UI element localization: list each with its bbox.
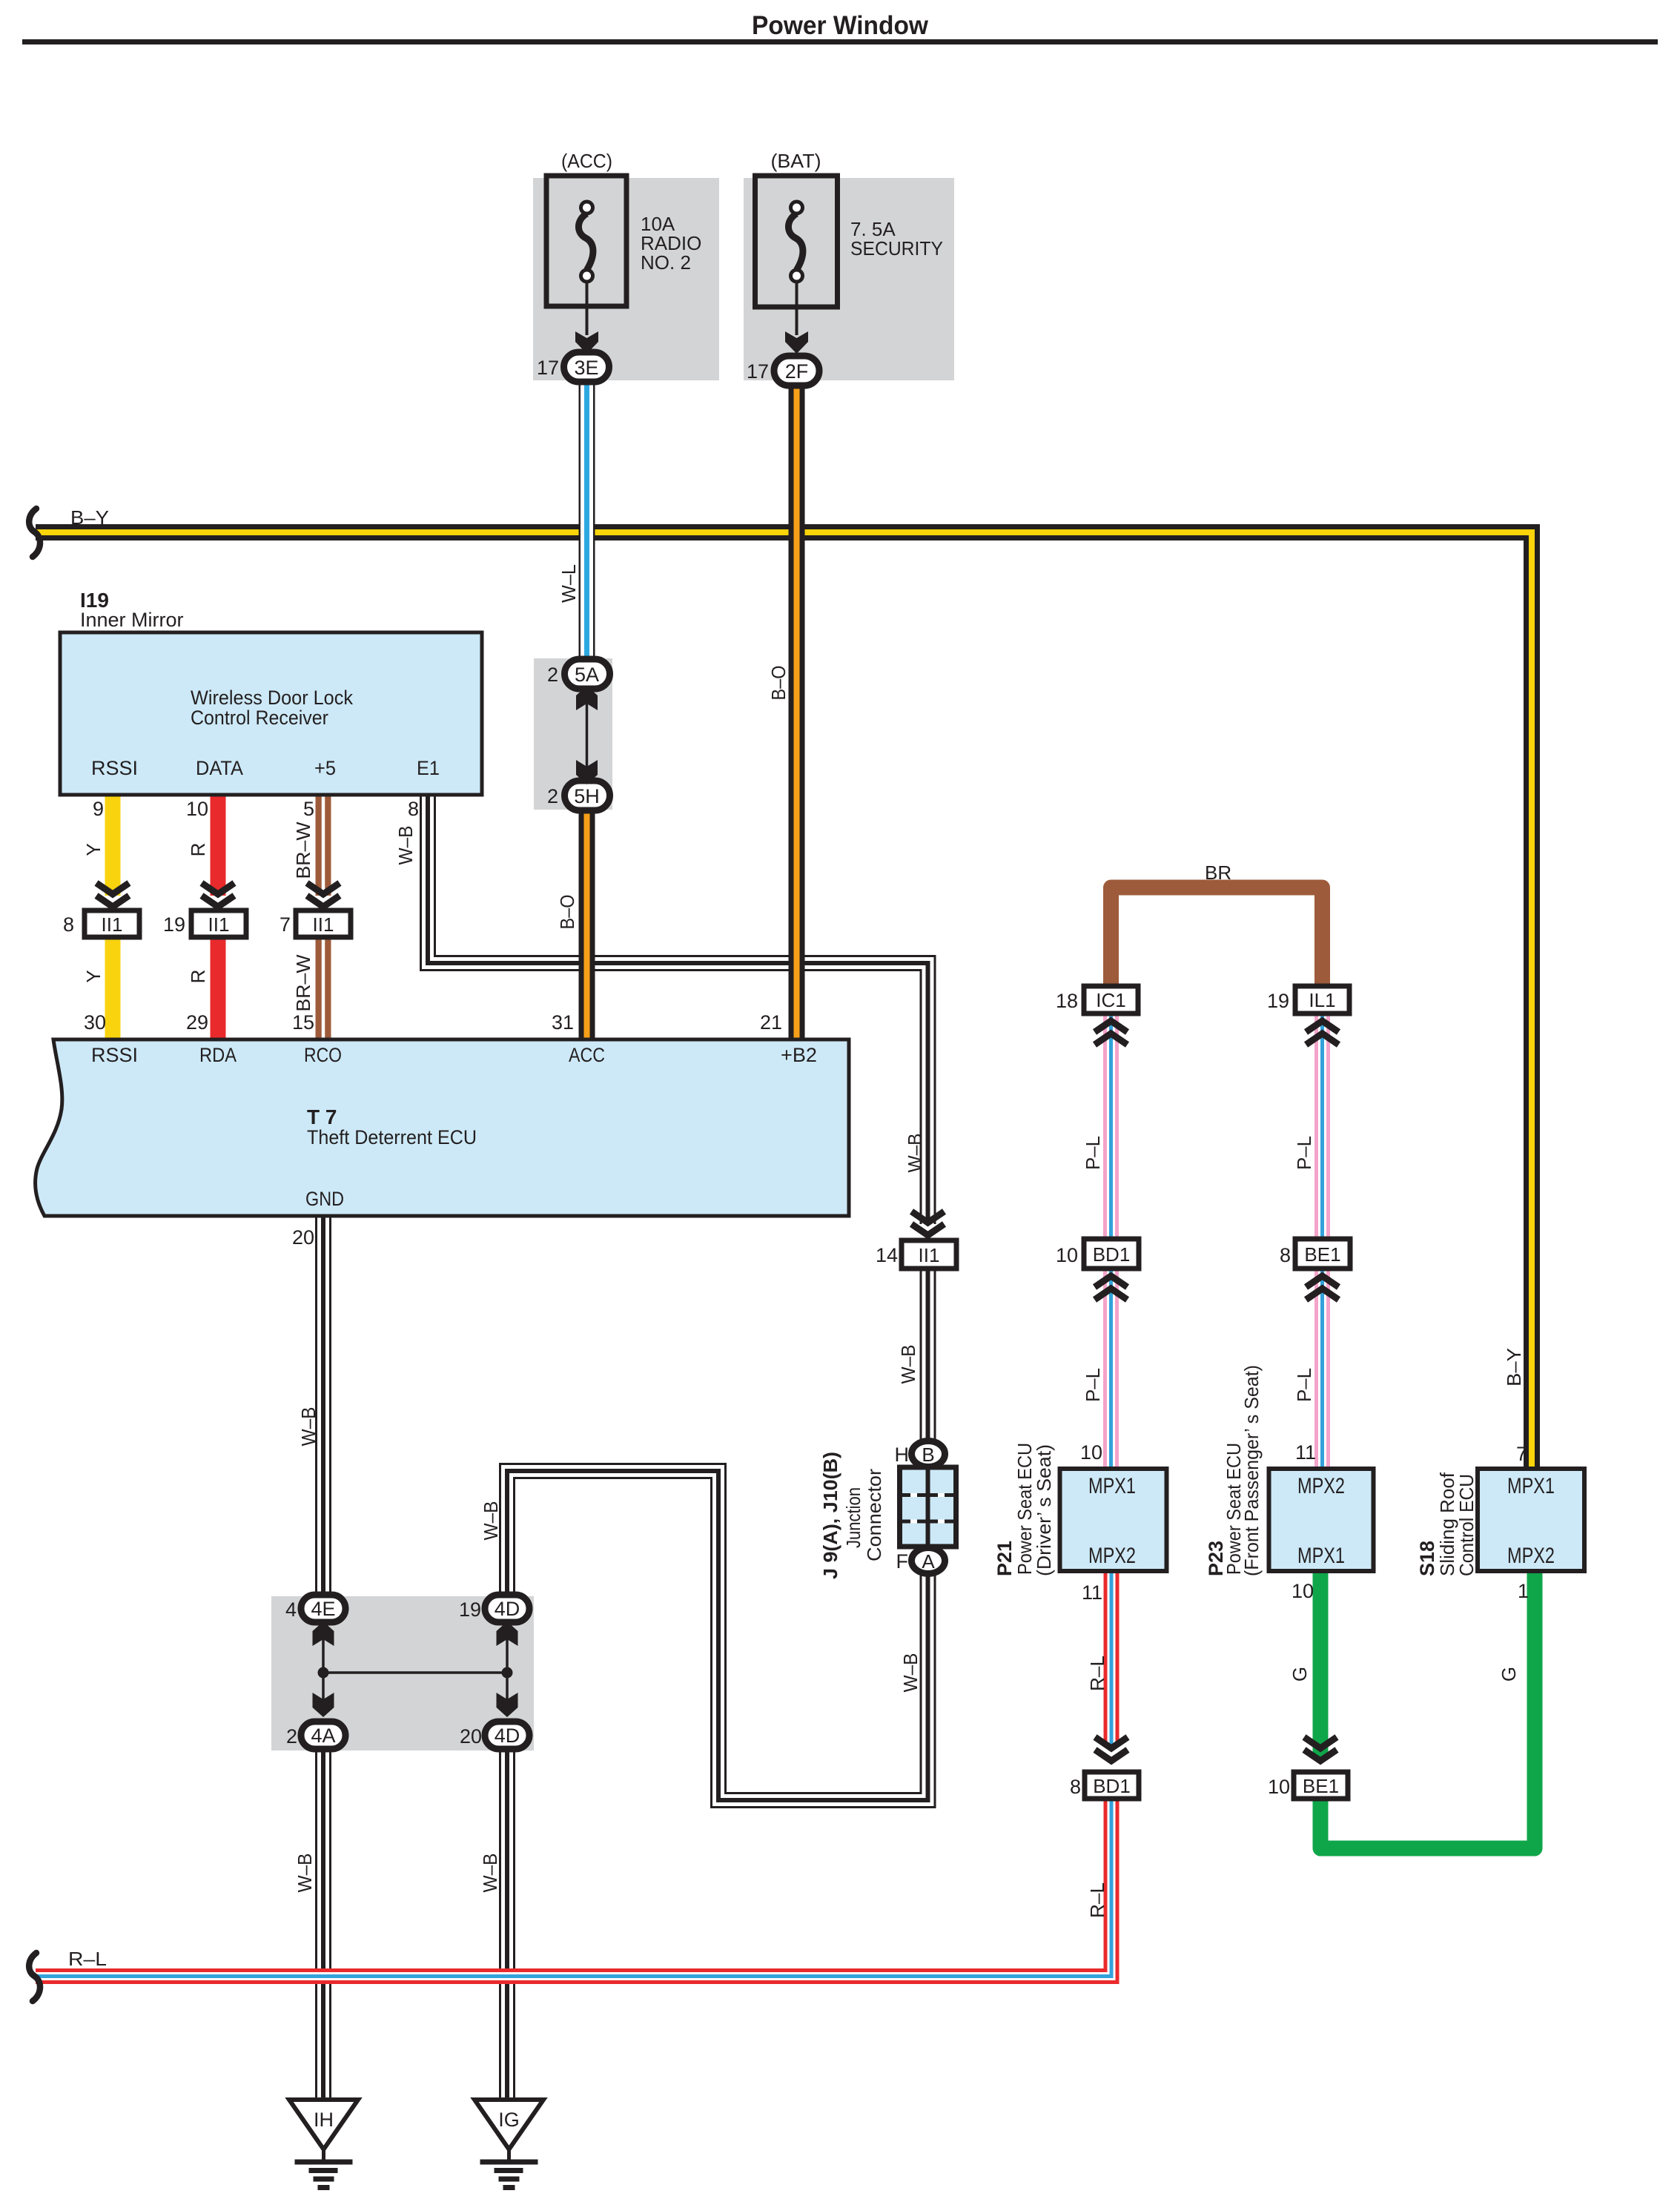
svg-text:IC1: IC1: [1096, 989, 1125, 1011]
svg-text:8: 8: [1280, 1244, 1291, 1266]
wire G: BE1 pin 10 down, right and up to S18 MPX2 pin 1: [1320, 1570, 1535, 1848]
svg-text:B: B: [922, 1444, 934, 1466]
ground IG: [474, 2100, 543, 2149]
svg-text:RSSI: RSSI: [91, 1044, 138, 1066]
svg-text:MPX1: MPX1: [1297, 1544, 1345, 1568]
svg-text:19: 19: [163, 913, 185, 936]
shade box: BAT fuse block: [744, 178, 954, 380]
svg-text:Control Receiver: Control Receiver: [191, 707, 328, 729]
svg-text:II1: II1: [313, 913, 334, 936]
svg-text:J 9(A), J10(B): J 9(A), J10(B): [819, 1452, 841, 1579]
svg-text:P–L: P–L: [1293, 1136, 1315, 1170]
connector II1 (pin 19): [191, 910, 246, 937]
fuse 10A RADIO NO.2 (ACC) body: [546, 176, 626, 306]
wire R-L: horizontal bus at bottom from left break up to BD1 pin 8: [36, 1799, 1111, 1977]
arrow chevrons into II1 pin 19: [202, 883, 234, 907]
svg-text:W–B: W–B: [479, 1854, 501, 1893]
arrow chevrons up into IL1: [1306, 1021, 1339, 1045]
svg-text:B–O: B–O: [767, 666, 790, 701]
svg-text:IG: IG: [498, 2109, 520, 2131]
svg-text:10: 10: [1268, 1776, 1290, 1798]
connector oval 4D (pin 19): [485, 1595, 529, 1622]
svg-text:W–B: W–B: [294, 1854, 316, 1893]
arrow chevrons up into BE1: [1306, 1276, 1339, 1300]
wire W-B: T7 GND pin 20 down to 4E: [315, 1216, 331, 1596]
svg-text:IL1: IL1: [1309, 989, 1335, 1011]
svg-text:20: 20: [460, 1725, 482, 1748]
svg-text:ACC: ACC: [569, 1044, 605, 1066]
svg-text:19: 19: [1267, 990, 1289, 1012]
connector II1 (pin 7): [296, 910, 351, 937]
svg-text:R–L: R–L: [1086, 1882, 1108, 1918]
svg-text:2: 2: [286, 1725, 297, 1748]
arrow chevrons into II1 pin 8: [96, 883, 129, 907]
svg-text:7: 7: [280, 913, 291, 936]
connector oval 2F: [774, 356, 819, 386]
break squiggle at left end of R-L: [29, 1953, 40, 2001]
svg-text:BR: BR: [1205, 862, 1231, 884]
junction connector body: [900, 1467, 956, 1547]
svg-text:MPX2: MPX2: [1088, 1544, 1136, 1568]
svg-text:BR–W: BR–W: [292, 954, 314, 1011]
svg-text:BE1: BE1: [1304, 1243, 1340, 1266]
connector oval B: [912, 1441, 945, 1467]
svg-text:10: 10: [1056, 1244, 1078, 1266]
svg-text:II1: II1: [102, 913, 123, 936]
svg-text:Connector: Connector: [863, 1469, 885, 1561]
svg-text:W–B: W–B: [480, 1501, 502, 1541]
svg-text:II1: II1: [919, 1244, 940, 1266]
fuse BAT output lead: [796, 282, 798, 335]
svg-text:S18: S18: [1416, 1541, 1438, 1576]
svg-text:DATA: DATA: [196, 757, 243, 779]
svg-text:8: 8: [63, 913, 74, 936]
wire W-B: 4D pin 20 down to IG ground: [499, 1748, 515, 2101]
connector BD1 (pin 10): [1084, 1239, 1139, 1269]
svg-text:17: 17: [537, 357, 559, 379]
junction dot left: [318, 1667, 329, 1679]
connector oval 4E: [301, 1595, 345, 1622]
title rule: [22, 39, 1658, 44]
svg-text:W–B: W–B: [904, 1134, 926, 1173]
svg-text:B–O: B–O: [556, 895, 578, 930]
svg-text:+5: +5: [314, 757, 336, 779]
svg-text:IH: IH: [314, 2109, 334, 2131]
svg-text:R: R: [187, 843, 209, 857]
svg-text:7: 7: [1516, 1443, 1527, 1465]
arrow chevrons into II1 pin 14: [912, 1211, 945, 1235]
connector oval 4A: [301, 1722, 345, 1749]
svg-text:10: 10: [186, 798, 208, 820]
junction dot right: [502, 1667, 513, 1679]
arrow down toward lower 4D: [497, 1693, 518, 1717]
fuse ACC output lead: [586, 282, 589, 335]
arrow down toward 4A: [313, 1693, 334, 1717]
ground IH: [289, 2100, 358, 2149]
fuse 7.5A SECURITY (BAT) body: [755, 176, 838, 307]
svg-text:5H: 5H: [574, 785, 600, 807]
connector oval A: [912, 1548, 945, 1574]
svg-text:G: G: [1498, 1667, 1520, 1682]
connector II1 (pin 8): [85, 910, 139, 937]
svg-text:P–L: P–L: [1082, 1368, 1104, 1402]
wire P-L: IL1 down to BE1 pin 8: [1314, 1014, 1330, 1240]
svg-text:W–B: W–B: [897, 1345, 919, 1384]
svg-text:21: 21: [760, 1011, 782, 1034]
svg-text:SECURITY: SECURITY: [850, 237, 943, 259]
svg-text:MPX1: MPX1: [1507, 1474, 1555, 1498]
svg-text:W–B: W–B: [394, 826, 417, 865]
svg-text:R–L: R–L: [68, 1948, 107, 1970]
svg-text:BR–W: BR–W: [292, 821, 314, 879]
arrow up toward 4E: [313, 1621, 334, 1646]
svg-text:4D: 4D: [495, 1725, 520, 1747]
svg-text:B–Y: B–Y: [70, 506, 109, 529]
wire R: II1 pin 19 to T7 RDA pin 29: [211, 937, 226, 1039]
arrow chevrons up into BD1: [1095, 1276, 1128, 1300]
svg-text:9: 9: [93, 798, 104, 820]
ECU P21 Power Seat ECU (Driver's Seat): [1060, 1469, 1167, 1571]
svg-text:3E: 3E: [574, 357, 598, 379]
svg-text:W–B: W–B: [297, 1407, 320, 1446]
connector BD1 (pin 8): [1085, 1772, 1139, 1799]
svg-text:8: 8: [1070, 1776, 1081, 1798]
fuse element ACC: [578, 214, 593, 270]
wire G: P23 MPX1 pin 10 down to BE1 pin 10: [1313, 1570, 1329, 1759]
svg-text:G: G: [1289, 1667, 1311, 1682]
svg-text:MPX2: MPX2: [1507, 1544, 1555, 1568]
connector oval 4D (pin 20): [485, 1722, 529, 1749]
tie bar between 4E and 4D legs: [323, 1671, 507, 1674]
wire BR-W: II1 pin 7 to T7 RCO pin 15: [316, 937, 331, 1039]
svg-text:2: 2: [547, 664, 558, 686]
svg-text:19: 19: [459, 1598, 481, 1621]
svg-text:(Driver’ s Seat): (Driver’ s Seat): [1033, 1444, 1055, 1576]
svg-text:GND: GND: [305, 1188, 344, 1210]
svg-text:4A: 4A: [311, 1725, 335, 1747]
svg-text:15: 15: [292, 1011, 314, 1034]
svg-text:Junction: Junction: [842, 1487, 864, 1548]
arrow into connector 3E: [575, 331, 598, 354]
svg-text:Y: Y: [82, 843, 105, 856]
svg-text:10: 10: [1080, 1441, 1102, 1464]
ECU S18 Sliding Roof Control ECU: [1478, 1469, 1584, 1571]
svg-text:5A: 5A: [575, 664, 599, 686]
svg-text:RDA: RDA: [199, 1044, 237, 1066]
svg-text:RCO: RCO: [304, 1044, 342, 1066]
svg-text:E1: E1: [417, 757, 440, 779]
svg-text:P21: P21: [993, 1541, 1016, 1576]
svg-text:BD1: BD1: [1093, 1243, 1131, 1266]
wire B-Y: horizontal bus from left break, across top, down right side to S18 pin 7: [36, 532, 1532, 1469]
arrow chevrons up into IC1: [1095, 1021, 1128, 1045]
wire B-O: fuse 2F down to T7 +B2 pin 21: [789, 383, 805, 1039]
svg-text:5: 5: [303, 798, 314, 820]
wire B-O: 5H down to T7 ACC pin 31: [579, 808, 595, 1039]
connector BE1 (pin 10): [1294, 1772, 1348, 1799]
wire P-L: BD1 down to P21 MPX1 pin 10: [1103, 1269, 1119, 1470]
svg-text:18: 18: [1056, 990, 1078, 1012]
connector oval 5H: [565, 781, 610, 810]
svg-text:4D: 4D: [495, 1598, 520, 1620]
arrow into connector 2F: [785, 331, 808, 354]
svg-text:H: H: [895, 1444, 910, 1466]
arrow down toward 5H: [576, 760, 598, 784]
svg-text:30: 30: [84, 1011, 106, 1034]
wire R-L: P21 MPX2 pin 11 down to BD1 pin 8: [1104, 1570, 1120, 1747]
link lead 4E-4A: [322, 1631, 325, 1709]
svg-text:11: 11: [1082, 1581, 1102, 1604]
svg-text:MPX2: MPX2: [1297, 1474, 1345, 1498]
svg-text:R–L: R–L: [1086, 1656, 1108, 1691]
wire BR-W: I19 +5 pin 5 to II1 pin 7: [316, 795, 331, 896]
svg-text:NO. 2: NO. 2: [641, 251, 691, 274]
svg-text:Theft Deterrent ECU: Theft Deterrent ECU: [307, 1126, 477, 1148]
shade box: 5A/5H junction: [534, 658, 612, 810]
wire P-L: IC1 down to BD1 pin 10: [1103, 1014, 1119, 1240]
connector IC1: [1084, 986, 1138, 1014]
fuse element BAT: [788, 214, 803, 270]
connector oval 3E: [564, 352, 609, 382]
wire W-L: fuse 3E down to 5A: [579, 380, 595, 660]
svg-text:T 7: T 7: [307, 1105, 337, 1128]
svg-text:14: 14: [876, 1244, 898, 1266]
svg-text:11: 11: [1295, 1441, 1316, 1464]
svg-text:A: A: [922, 1550, 935, 1573]
wire BR: bridge from IC1 pin 18 up and over to IL1 pin 19: [1111, 887, 1323, 988]
svg-text:Wireless Door Lock: Wireless Door Lock: [191, 687, 353, 709]
wire W-B: II1 pin 14 down to junction connector B: [920, 1267, 936, 1446]
wire R: I19 DATA pin 10 to II1 pin 19: [211, 795, 226, 896]
connector oval 5A: [565, 659, 610, 689]
svg-text:BE1: BE1: [1303, 1775, 1339, 1797]
svg-text:(BAT): (BAT): [771, 150, 821, 172]
break squiggle at left end of B-Y: [29, 509, 40, 557]
svg-text:8: 8: [408, 798, 419, 820]
link lead 4D-4D: [506, 1631, 509, 1709]
svg-text:31: 31: [552, 1011, 574, 1034]
arrow chevrons down into BD1 pin 8: [1095, 1737, 1128, 1761]
wire W-B: from I19 E1 pin 8 right and down to II1 pin 14: [428, 795, 928, 1224]
svg-text:P–L: P–L: [1082, 1136, 1104, 1170]
svg-text:4: 4: [285, 1598, 297, 1621]
wire Y: II1 pin 8 to T7 RSSI pin 30: [105, 937, 121, 1039]
svg-text:Control ECU: Control ECU: [1455, 1474, 1478, 1576]
svg-text:B–Y: B–Y: [1503, 1348, 1525, 1386]
svg-text:W–L: W–L: [558, 564, 580, 603]
svg-text:II1: II1: [208, 913, 230, 936]
svg-text:(Front Passenger’ s Seat): (Front Passenger’ s Seat): [1240, 1365, 1263, 1576]
wire Y: I19 RSSI pin 9 to II1 pin 8: [105, 795, 121, 896]
connector BE1 (pin 8): [1295, 1239, 1350, 1269]
connector IL1: [1295, 986, 1349, 1014]
arrow up toward 4D: [497, 1621, 518, 1646]
shade box: ACC fuse block: [533, 178, 719, 380]
wire W-B: junction connector A down, left, up and left into 4D pin 19: [507, 1471, 928, 1800]
arrow up toward 5A: [576, 686, 598, 710]
ECU P23 Power Seat ECU (Front Passenger's Seat): [1269, 1469, 1374, 1571]
svg-text:4E: 4E: [311, 1598, 335, 1620]
svg-text:Inner Mirror: Inner Mirror: [80, 609, 184, 631]
wire W-B: 4A down to IH ground: [315, 1748, 331, 2101]
svg-text:MPX1: MPX1: [1088, 1474, 1136, 1498]
svg-text:RSSI: RSSI: [91, 757, 138, 779]
svg-text:2: 2: [547, 785, 558, 807]
shade box: 4E/4A/4D junction: [271, 1596, 534, 1750]
svg-text:2F: 2F: [785, 360, 809, 383]
connector II1 (pin 14): [902, 1240, 956, 1269]
arrow chevrons down into BE1 pin 10: [1304, 1737, 1337, 1761]
svg-text:29: 29: [186, 1011, 208, 1034]
svg-text:10: 10: [1292, 1580, 1314, 1602]
svg-text:F: F: [896, 1550, 909, 1573]
wire P-L: BE1 down to P23 MPX2 pin 11: [1314, 1269, 1330, 1470]
svg-text:P–L: P–L: [1293, 1368, 1315, 1402]
svg-text:R: R: [187, 970, 209, 984]
svg-text:(ACC): (ACC): [561, 150, 612, 172]
link lead 5A-5H: [586, 697, 589, 775]
svg-text:17: 17: [747, 360, 769, 383]
svg-text:Y: Y: [82, 970, 105, 982]
svg-text:1: 1: [1518, 1580, 1529, 1602]
svg-text:+B2: +B2: [781, 1044, 817, 1066]
svg-text:W–B: W–B: [899, 1653, 922, 1693]
svg-text:BD1: BD1: [1093, 1775, 1131, 1797]
svg-text:Power Window: Power Window: [752, 11, 929, 40]
arrow chevrons into II1 pin 7: [307, 883, 340, 907]
svg-text:20: 20: [292, 1226, 314, 1249]
